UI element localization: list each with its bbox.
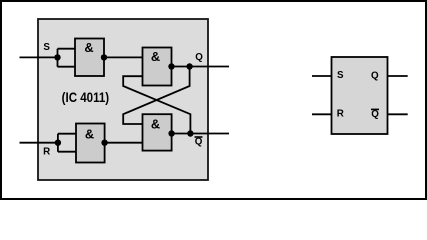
svg-text:Q: Q	[195, 136, 203, 147]
svg-text:&: &	[84, 40, 93, 55]
svg-text:Q: Q	[371, 109, 379, 120]
svg-text:&: &	[151, 49, 160, 64]
svg-text:R: R	[43, 147, 50, 158]
svg-text:S: S	[337, 70, 344, 81]
svg-text:Q: Q	[195, 52, 203, 63]
svg-text:(IC 4011): (IC 4011)	[62, 90, 110, 105]
svg-text:&: &	[151, 117, 160, 132]
svg-text:S: S	[43, 42, 50, 53]
svg-text:&: &	[85, 127, 94, 142]
svg-text:R: R	[337, 109, 344, 120]
svg-text:Q: Q	[371, 71, 379, 82]
